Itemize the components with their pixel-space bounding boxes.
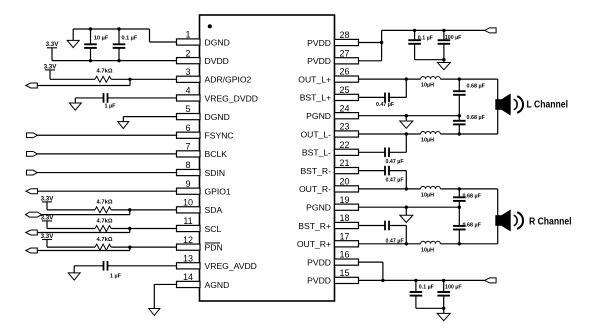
pin 18 box [335, 213, 359, 228]
pin 9 label GPIO1 [205, 187, 231, 197]
wire OUT_L- [359, 133, 498, 135]
ground (DGND decoupling) [67, 29, 79, 48]
wire GPIO1 [38, 190, 177, 192]
svg-text:3.3V: 3.3V [41, 195, 55, 202]
junction dots PVDD top [413, 29, 446, 62]
wire ADR to connector [37, 79, 130, 85]
pin 21 box [335, 158, 359, 174]
svg-text:0.47 µF: 0.47 µF [386, 159, 405, 165]
connector ADR/GPIO2 [26, 83, 38, 88]
resistor 4.7k (SCL pull-up) [47, 226, 177, 232]
pin 7 box [177, 142, 201, 158]
label R Channel [529, 216, 572, 227]
node OUT_R+ b [458, 242, 461, 245]
resistor 4.7k (SDA pull-up) [47, 207, 177, 213]
pin 8 box [177, 160, 201, 176]
wire PVDD pin16 [359, 262, 383, 280]
connector BCLK [27, 152, 38, 157]
node PGND L b [458, 114, 461, 117]
svg-text:PDN: PDN [205, 242, 223, 252]
pin 21 label BST_R- [300, 166, 331, 176]
ground (PVDD bottom) [437, 308, 450, 320]
svg-text:AGND: AGND [205, 280, 230, 290]
svg-text:0.47 µF: 0.47 µF [376, 102, 395, 108]
pin 19 box [335, 195, 359, 211]
svg-text:3.3V: 3.3V [44, 63, 58, 70]
svg-text:0.68 µF: 0.68 µF [463, 193, 482, 199]
svg-text:6: 6 [185, 123, 190, 133]
svg-text:PVDD: PVDD [307, 276, 331, 286]
svg-text:9: 9 [185, 179, 190, 189]
wire FSYNC [37, 134, 176, 136]
pin 5 label DGND [205, 112, 230, 122]
label 10uH OUT_L+ [421, 83, 434, 89]
capacitor 0.47uF (BST_L-) [359, 134, 407, 157]
svg-text:OUT_R+: OUT_R+ [297, 239, 331, 249]
capacitor 100uF (PVDD top) [438, 30, 451, 59]
pin 3 box [177, 67, 201, 82]
capacitor 0.68uF (R lower) [453, 207, 466, 244]
svg-text:0.1 µF: 0.1 µF [122, 36, 138, 42]
pin 9 box [177, 179, 201, 195]
power 3.3V (SDA pull-up) [41, 195, 55, 210]
pin 17 label OUT_R+ [297, 239, 331, 249]
inductor 10uH (OUT_R+) [421, 241, 441, 244]
svg-text:10µH: 10µH [421, 247, 434, 253]
label 0.47uF BST_R- [386, 177, 405, 183]
pin 5 box [177, 104, 201, 120]
svg-text:4.7kΩ: 4.7kΩ [97, 218, 113, 224]
speaker L [495, 94, 523, 116]
svg-text:OUT_R-: OUT_R- [299, 184, 331, 194]
pin 14 box [177, 272, 201, 288]
svg-text:0.1 µF: 0.1 µF [418, 35, 434, 41]
wire L speaker loop [497, 79, 499, 134]
svg-text:100 µF: 100 µF [445, 285, 462, 291]
svg-text:10 µF: 10 µF [94, 36, 109, 42]
wire PDN to connector [37, 247, 130, 250]
power 3.3V (DVDD) [46, 41, 60, 60]
svg-text:DVDD: DVDD [205, 56, 229, 66]
wire OUT_L+ [359, 78, 498, 80]
node SDA junction [128, 208, 131, 211]
junction dots PVDD bottom [414, 279, 445, 310]
connector FSYNC [27, 133, 38, 138]
svg-text:L Channel: L Channel [527, 100, 569, 111]
resistor 4.7k (ADR/GPIO2 pull-up) [50, 76, 177, 82]
ground (PGND L) [400, 116, 413, 129]
PVDD bottom rail [383, 279, 485, 281]
pin 20 label OUT_R- [299, 184, 331, 194]
label 10uH OUT_R- [421, 192, 434, 198]
svg-text:0.1 µF: 0.1 µF [419, 285, 435, 291]
svg-text:13: 13 [183, 253, 193, 263]
svg-text:11: 11 [183, 216, 192, 226]
connector PVDD bottom [485, 278, 497, 283]
svg-text:3.3V: 3.3V [41, 233, 55, 240]
pin 27 box [335, 48, 359, 64]
pin 22 box [335, 140, 359, 156]
label 10uF [94, 36, 109, 42]
label 0.68uF R lower [463, 222, 482, 228]
svg-text:10µH: 10µH [421, 138, 434, 144]
wire SDIN [37, 172, 176, 174]
svg-text:10µH: 10µH [421, 192, 434, 198]
svg-text:GPIO1: GPIO1 [205, 187, 231, 197]
PVDD top rail [382, 29, 485, 31]
svg-text:20: 20 [339, 177, 349, 187]
capacitor 1uF (VREG_DVDD) [75, 93, 176, 103]
capacitor 100uF (PVDD bottom) [437, 280, 450, 308]
node SCL junction [128, 227, 131, 230]
svg-text:15: 15 [339, 268, 349, 278]
wire PGND pin19 [359, 206, 460, 208]
pin 23 box [335, 122, 359, 137]
pin 22 label BST_L- [302, 148, 331, 158]
svg-text:28: 28 [339, 30, 349, 40]
capacitor 0.1uF (PVDD bottom) [410, 280, 423, 308]
label 0.68uF R upper [463, 193, 482, 199]
wire PVDD pin28 [359, 42, 382, 44]
pin 6 label FSYNC [205, 131, 234, 141]
svg-text:4.7kΩ: 4.7kΩ [97, 237, 113, 243]
svg-text:23: 23 [339, 122, 349, 132]
wire SCL to connector [37, 229, 130, 233]
pin 25 box [335, 85, 359, 101]
pin 12 label PDN [205, 242, 223, 252]
svg-text:10: 10 [183, 197, 193, 207]
svg-text:PVDD: PVDD [307, 38, 331, 48]
node PGND L a [405, 114, 408, 117]
label 0.47uF BST_L- [386, 159, 405, 165]
svg-text:10µH: 10µH [421, 83, 434, 89]
svg-text:25: 25 [339, 85, 349, 95]
svg-text:0.68 µF: 0.68 µF [467, 84, 486, 90]
capacitor 0.1uF (DVDD) [113, 29, 126, 61]
inductor 10uH (OUT_L+) [421, 77, 441, 80]
inductor 10uH (OUT_L-) [421, 131, 441, 134]
power 3.3V (SCL pull-up) [41, 214, 55, 228]
node ADR junction [128, 78, 131, 81]
svg-text:ADR/GPIO2: ADR/GPIO2 [205, 75, 252, 85]
svg-text:BCLK: BCLK [205, 149, 228, 159]
svg-text:PGND: PGND [306, 111, 331, 121]
svg-text:12: 12 [183, 235, 193, 245]
svg-text:7: 7 [185, 142, 190, 152]
label 4.7kOhm ADR [97, 69, 113, 75]
pin 4 box [177, 86, 201, 101]
svg-text:PVDD: PVDD [307, 257, 331, 267]
svg-text:4.7kΩ: 4.7kΩ [97, 200, 113, 206]
svg-text:21: 21 [339, 158, 349, 168]
svg-text:4.7kΩ: 4.7kΩ [97, 69, 113, 75]
svg-text:100 µF: 100 µF [445, 35, 462, 41]
label 10uH OUT_L- [421, 138, 434, 144]
pin 16 label PVDD [307, 257, 331, 267]
svg-text:1 µF: 1 µF [110, 273, 122, 279]
svg-text:16: 16 [339, 250, 349, 260]
pin 13 box [177, 253, 201, 269]
label 4.7kOhm SCL [97, 218, 113, 224]
pin 28 label PVDD [307, 38, 331, 48]
node OUT_L- b [458, 132, 461, 135]
node OUT_L+ a [405, 77, 408, 80]
node PGND R a [405, 206, 408, 209]
pin 2 label DVDD [205, 56, 229, 66]
pin-1 indicator dot [208, 24, 212, 28]
svg-text:22: 22 [339, 140, 349, 150]
pin 26 box [335, 67, 359, 83]
wire PVDD pin15 [359, 279, 383, 281]
svg-text:SDIN: SDIN [205, 168, 226, 178]
ground (PGND R) [400, 207, 413, 222]
capacitor 10uF (DVDD) [84, 29, 97, 61]
pin 16 box [335, 250, 359, 266]
pin 1 box [177, 30, 201, 46]
svg-text:4: 4 [185, 86, 190, 96]
label 10uH OUT_R+ [421, 247, 434, 253]
pin 6 box [177, 123, 201, 138]
svg-text:19: 19 [339, 195, 349, 205]
label 0.1uF [122, 36, 138, 42]
pin 2 box [177, 48, 201, 64]
svg-text:3.3V: 3.3V [46, 41, 60, 48]
svg-text:0.47 µF: 0.47 µF [386, 177, 405, 183]
junction dots DVDD/DGND [89, 27, 121, 62]
pin 1 label DGND [205, 37, 230, 47]
pin 19 label PGND [306, 203, 331, 213]
node PVDD top [380, 41, 383, 44]
svg-text:1 µF: 1 µF [105, 103, 117, 109]
svg-text:BST_L+: BST_L+ [300, 93, 331, 103]
pin 18 label BST_R+ [298, 221, 331, 231]
svg-text:24: 24 [339, 103, 349, 113]
node OUT_L- a [405, 132, 408, 135]
pin 11 box [177, 216, 201, 231]
pin 15 label PVDD [307, 276, 331, 286]
svg-text:BST_R-: BST_R- [300, 166, 331, 176]
label 100uF top [445, 35, 462, 41]
pin 12 box [177, 235, 201, 251]
svg-text:OUT_L-: OUT_L- [300, 129, 331, 139]
connector SCL [26, 230, 38, 235]
svg-text:14: 14 [183, 272, 193, 282]
connector PVDD top [485, 28, 497, 33]
svg-text:PVDD: PVDD [307, 56, 331, 66]
wire SDA to connector [42, 210, 130, 215]
pin 20 box [335, 177, 359, 193]
pin 23 label OUT_L- [300, 129, 331, 139]
node OUT_L+ b [458, 77, 461, 80]
capacitor 1uF (VREG_AVDD) [74, 261, 176, 271]
label 4.7kOhm SDA [97, 200, 113, 206]
svg-text:SDA: SDA [205, 205, 223, 215]
connector GPIO1 [26, 189, 38, 194]
wire OUT_R- [359, 188, 498, 190]
label 0.68uF L lower [467, 115, 486, 121]
pin 15 box [335, 268, 359, 284]
svg-text:3.3V: 3.3V [41, 214, 55, 221]
node PGND R b [458, 206, 461, 209]
pin 13 label VREG_AVDD [205, 261, 257, 271]
wire cap commons bottom [416, 307, 444, 309]
pin 25 label BST_L+ [300, 93, 331, 103]
capacitor 0.47uF (BST_L+) [359, 79, 407, 102]
svg-text:R Channel: R Channel [529, 216, 572, 227]
svg-text:17: 17 [339, 231, 349, 241]
svg-text:18: 18 [339, 213, 349, 223]
connector SDIN [27, 170, 38, 175]
capacitor 0.47uF (BST_R+) [359, 221, 407, 244]
pin 17 box [335, 231, 359, 247]
pin 26 label OUT_L+ [298, 74, 331, 84]
wire PGND pin24 [359, 115, 460, 117]
svg-text:8: 8 [185, 160, 190, 170]
wire R speaker loop [497, 189, 499, 244]
svg-text:26: 26 [339, 67, 349, 77]
pin 3 label ADR/GPIO2 [205, 75, 252, 85]
pin 10 box [177, 197, 201, 213]
capacitor 0.68uF (L upper) [453, 79, 466, 116]
capacitor 0.47uF (BST_R-) [359, 166, 407, 189]
svg-text:VREG_DVDD: VREG_DVDD [205, 93, 258, 103]
label L Channel [527, 100, 569, 111]
svg-text:5: 5 [185, 104, 190, 114]
svg-text:BST_R+: BST_R+ [298, 221, 331, 231]
ground (PVDD top) [437, 60, 450, 70]
svg-text:VREG_AVDD: VREG_AVDD [205, 261, 257, 271]
svg-text:PGND: PGND [306, 203, 331, 213]
speaker R [495, 210, 523, 232]
power 3.3V (PDN pull-up) [41, 233, 55, 247]
wire AGND [154, 284, 176, 308]
resistor 4.7k (PDN pull-up) [47, 244, 177, 250]
label 0.1uF top [418, 35, 434, 41]
svg-text:0.68 µF: 0.68 µF [467, 115, 486, 121]
pin 14 label AGND [205, 280, 230, 290]
svg-text:1: 1 [185, 30, 190, 40]
ground (VREG_DVDD) [69, 98, 81, 110]
node PVDD bottom [381, 279, 384, 282]
svg-text:DGND: DGND [205, 112, 230, 122]
power 3.3V (ADR pull-up) [44, 63, 58, 79]
inductor 10uH (OUT_R-) [421, 186, 441, 189]
wire PVDD top riser [381, 30, 383, 60]
label 0.47uF BST_R+ [386, 239, 405, 245]
label 4.7kOhm PDN [97, 237, 113, 243]
connector SDA [26, 212, 42, 217]
capacitor 0.68uF (R upper) [453, 189, 466, 207]
node OUT_R+ a [405, 242, 408, 245]
node OUT_R- a [405, 187, 408, 190]
pin 4 label VREG_DVDD [205, 93, 258, 103]
wire OUT_R+ [359, 243, 498, 245]
svg-text:FSYNC: FSYNC [205, 131, 234, 141]
pin 7 label BCLK [205, 149, 228, 159]
label 100uF bottom [445, 285, 462, 291]
pin 24 label PGND [306, 111, 331, 121]
pin 24 box [335, 103, 359, 118]
svg-text:OUT_L+: OUT_L+ [298, 74, 331, 84]
capacitor 0.1uF (PVDD top) [408, 30, 421, 59]
label 1uF VREG_AVDD [110, 273, 122, 279]
svg-text:BST_L-: BST_L- [302, 148, 331, 158]
svg-text:2: 2 [185, 48, 190, 58]
DGND top rail wire [73, 29, 176, 42]
wire cap commons top [415, 59, 444, 61]
svg-text:SCL: SCL [205, 224, 222, 234]
node OUT_R- b [458, 187, 461, 190]
pin 10 label SDA [205, 205, 223, 215]
label 1uF VREG_DVDD [105, 103, 117, 109]
wire DGND pin5 [123, 117, 176, 122]
label 0.68uF L upper [467, 84, 486, 90]
label 0.47uF BST_L+ [376, 102, 395, 108]
ground (VREG_AVDD) [68, 266, 80, 280]
pin 28 box [335, 30, 359, 46]
op IC body TPA31xx [200, 15, 335, 301]
ground (pin5 DGND) [118, 122, 129, 129]
label 0.1uF bottom [419, 285, 435, 291]
svg-text:0.68 µF: 0.68 µF [463, 222, 482, 228]
DVDD rail wire [52, 60, 177, 62]
node PDN junction [128, 245, 131, 248]
capacitor 0.68uF (L lower) [453, 116, 466, 134]
ground (AGND) [149, 309, 160, 316]
pin 11 label SCL [205, 224, 222, 234]
wire PVDD pin27 [359, 60, 382, 62]
connector PDN [26, 248, 38, 253]
pin 8 label SDIN [205, 168, 226, 178]
svg-text:27: 27 [339, 48, 349, 58]
pin 27 label PVDD [307, 56, 331, 66]
wire BCLK [37, 153, 176, 155]
svg-text:3: 3 [185, 67, 190, 77]
svg-text:DGND: DGND [205, 37, 230, 47]
